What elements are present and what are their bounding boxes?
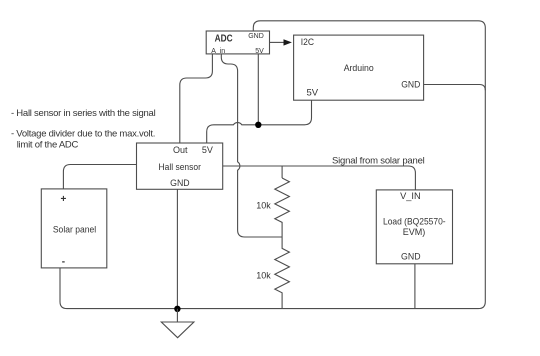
box ADC U1 xyxy=(206,31,269,55)
svg-text:Load (BQ25570-: Load (BQ25570- xyxy=(383,216,446,227)
wire Hall sensor signal to Load V_IN xyxy=(223,166,416,190)
svg-text:- Voltage divider due to the m: - Voltage divider due to the max.volt. xyxy=(11,129,155,140)
svg-text:GND: GND xyxy=(401,251,421,262)
wire ADC A_in to Hall sensor Out xyxy=(180,54,213,143)
box Solar panel xyxy=(41,189,107,268)
wire GND net: ADC GND up, across top, down right side, bottom rail, up into solar panel minus xyxy=(60,21,485,309)
svg-text:GND: GND xyxy=(248,33,264,40)
wire branch from signal down to resistor R1 xyxy=(281,166,283,178)
svg-text:-: - xyxy=(62,257,65,268)
box Load BQ25570-EVM xyxy=(376,190,452,264)
wire solar panel plus up to Hall sensor left xyxy=(63,165,136,189)
svg-text:ADC: ADC xyxy=(215,32,233,44)
ground symbol xyxy=(161,309,194,338)
svg-text:10k: 10k xyxy=(256,200,271,210)
svg-text:10k: 10k xyxy=(256,271,271,281)
wire ADC 5V down to 5V rail xyxy=(257,54,259,125)
wire arrow ADC to Arduino I2C xyxy=(270,41,284,43)
svg-text:Solar panel: Solar panel xyxy=(53,225,96,236)
svg-text:V_IN: V_IN xyxy=(400,191,421,202)
wire 5V rail: Hall sensor 5V up, across, up to Arduino 5V xyxy=(207,100,312,143)
svg-text:limit of the ADC: limit of the ADC xyxy=(17,140,79,151)
svg-text:A_in: A_in xyxy=(211,48,225,55)
svg-text:- Hall sensor in series with t: - Hall sensor in series with the signal xyxy=(11,108,156,119)
svg-text:GND: GND xyxy=(170,178,190,189)
svg-text:5V: 5V xyxy=(202,145,213,155)
svg-text:I2C: I2C xyxy=(301,37,314,48)
svg-text:Out: Out xyxy=(173,145,188,155)
junction dot ground rail xyxy=(174,306,180,312)
box Arduino U2 xyxy=(294,35,424,100)
arrowhead into Arduino I2C xyxy=(284,39,292,45)
svg-text:Signal from solar panel: Signal from solar panel xyxy=(332,156,425,167)
resistor R1 10k xyxy=(275,178,290,237)
wire Load GND down to ground rail xyxy=(414,264,416,309)
svg-text:GND: GND xyxy=(401,80,420,91)
svg-text:EVM): EVM) xyxy=(403,227,426,238)
svg-text:5V: 5V xyxy=(255,48,264,55)
box Hall sensor U3 xyxy=(137,143,223,189)
svg-text:+: + xyxy=(60,194,66,205)
wire Arduino GND to right-side GND line xyxy=(424,85,486,91)
wire ADC A_in to voltage divider midpoint xyxy=(221,54,282,237)
resistor R2 10k xyxy=(275,237,290,309)
svg-text:Hall sensor: Hall sensor xyxy=(159,162,201,173)
svg-text:Arduino: Arduino xyxy=(344,63,374,74)
svg-text:5V: 5V xyxy=(307,87,319,98)
junction dot 5V net xyxy=(255,122,261,128)
wire Hall sensor GND down to ground rail xyxy=(176,189,178,308)
